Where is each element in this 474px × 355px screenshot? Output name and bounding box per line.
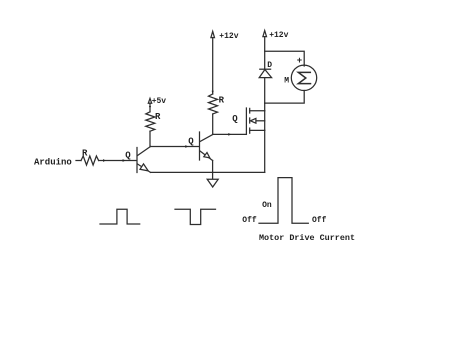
svg-text:On: On bbox=[262, 201, 272, 210]
svg-text:+12v: +12v bbox=[269, 31, 288, 40]
svg-text:R: R bbox=[219, 96, 225, 106]
svg-text:R: R bbox=[82, 149, 88, 159]
svg-text:+: + bbox=[297, 56, 302, 66]
wire diode anode down bbox=[264, 78, 266, 104]
svg-text:Q: Q bbox=[232, 114, 238, 124]
wire Q3 source to emitter rail bbox=[264, 130, 266, 172]
wire R3 to Q2 collector node bbox=[212, 114, 214, 134]
resistor R3 bbox=[209, 94, 218, 114]
wire Q3 drain to motor node bbox=[264, 103, 266, 111]
power +5v bbox=[148, 97, 166, 112]
wire motor bottom to drain node bbox=[265, 91, 305, 104]
wire Q2 collector to Q3 gate bbox=[213, 133, 247, 135]
svg-text:R: R bbox=[155, 112, 161, 122]
svg-text:+12v: +12v bbox=[219, 32, 238, 41]
svg-text:Q: Q bbox=[188, 137, 194, 147]
transistor Q1 bbox=[137, 147, 151, 173]
waveform motor drive current bbox=[259, 178, 308, 224]
transistor Q3 MOSFET bbox=[246, 108, 264, 134]
wire node A to Q2 base bbox=[151, 146, 200, 148]
svg-text:Q: Q bbox=[125, 151, 131, 161]
svg-text:D: D bbox=[267, 61, 272, 70]
waveform inverted pulse bbox=[175, 209, 216, 224]
svg-text:M: M bbox=[284, 77, 289, 86]
wire supply node to motor top bbox=[265, 51, 305, 66]
resistor R2 bbox=[146, 112, 155, 131]
waveform input pulse bbox=[100, 209, 140, 224]
power +12v motor supply bbox=[263, 31, 289, 70]
wire emitter rail bbox=[151, 171, 265, 173]
diode D bbox=[259, 69, 271, 77]
wire R2 to node A bbox=[149, 131, 151, 146]
svg-text:+5v: +5v bbox=[152, 97, 167, 106]
transistor Q2 bbox=[200, 132, 214, 161]
svg-text:Off: Off bbox=[242, 216, 257, 225]
svg-text:Off: Off bbox=[312, 216, 327, 225]
power +12v collector supply bbox=[211, 31, 239, 94]
wire Arduino to R1 bbox=[76, 160, 81, 162]
resistor R1 bbox=[81, 156, 99, 165]
svg-text:Motor Drive Current: Motor Drive Current bbox=[259, 233, 355, 243]
wire R1 to Q1 base bbox=[99, 160, 137, 162]
ground bbox=[207, 179, 218, 187]
motor M bbox=[291, 65, 316, 90]
svg-text:Arduino: Arduino bbox=[34, 158, 72, 168]
wire Q2 emitter to ground bbox=[212, 161, 214, 180]
